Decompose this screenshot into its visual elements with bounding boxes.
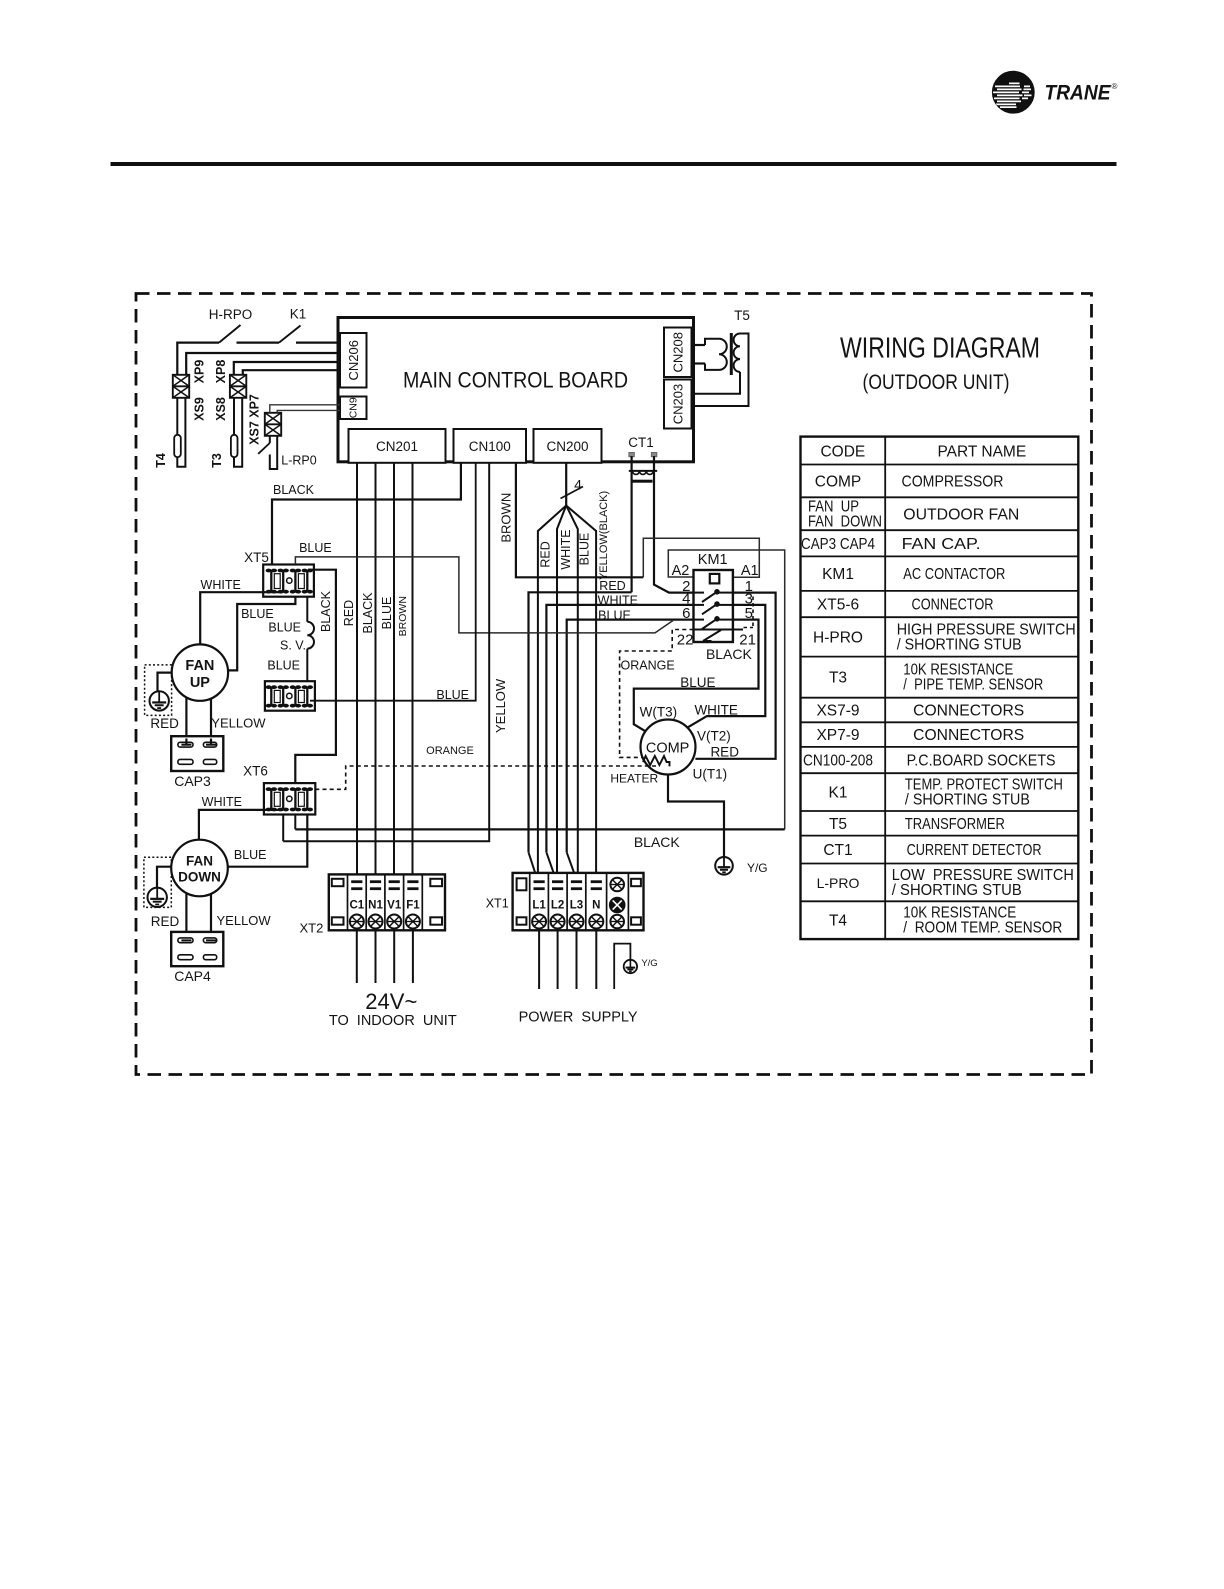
svg-text:K1: K1 xyxy=(829,785,848,802)
svg-text:BLUE: BLUE xyxy=(267,658,300,672)
wire A1 loop (thin) xyxy=(643,538,759,577)
connector XT5 body xyxy=(263,565,314,597)
wire cable conductor RED to XT1 L1 xyxy=(538,506,566,888)
connector XS7/XP7 xyxy=(265,413,281,436)
svg-text:CAP3 CAP4: CAP3 CAP4 xyxy=(801,536,875,553)
svg-text:BLUE: BLUE xyxy=(380,597,394,630)
wire XP9 pin2 to CN206 pin2 xyxy=(186,353,339,375)
wire K1 to CN206 pin1 xyxy=(296,342,339,344)
svg-text:BLUE: BLUE xyxy=(436,688,469,702)
sensor T4 thermistor capsule xyxy=(174,435,181,457)
socket CN200 xyxy=(534,429,602,463)
cable 4-conductor tick xyxy=(561,487,584,499)
wire T5 secondary top to CN203 pin2 xyxy=(694,334,749,407)
svg-text:YELLOW: YELLOW xyxy=(211,715,266,730)
wire jog XT1 L3 xyxy=(567,852,575,880)
connector XP8/XS8 xyxy=(230,375,246,398)
svg-text:L1: L1 xyxy=(532,900,546,912)
svg-text:TRANSFORMER: TRANSFORMER xyxy=(905,816,1005,833)
main control board U100 xyxy=(338,318,694,462)
svg-text:BLUE: BLUE xyxy=(234,848,267,862)
svg-text:C1: C1 xyxy=(349,900,364,912)
svg-text:/ SHORTING STUB: / SHORTING STUB xyxy=(905,792,1030,809)
svg-text:RED: RED xyxy=(539,541,553,567)
capacitor CAP4 xyxy=(171,932,223,966)
wire PE to ground symbol xyxy=(614,944,630,989)
sensor T4 lead loop xyxy=(177,398,185,467)
svg-text:F1: F1 xyxy=(406,900,420,912)
svg-text:WHITE: WHITE xyxy=(598,594,638,608)
svg-text:FAN DOWN: FAN DOWN xyxy=(808,513,882,530)
wire FAN DOWN leads to CAP4 xyxy=(185,894,187,941)
svg-text:RED: RED xyxy=(151,914,180,929)
svg-text:XS7-9: XS7-9 xyxy=(816,703,859,720)
terminal XT1 L3 xyxy=(571,880,582,883)
svg-text:P.C.BOARD SOCKETS: P.C.BOARD SOCKETS xyxy=(907,753,1056,770)
svg-text:T3: T3 xyxy=(210,453,224,468)
wire BLUE XT5 pin3 to FAN UP xyxy=(228,597,295,671)
svg-text:ORANGE: ORANGE xyxy=(426,745,474,757)
svg-text:BROWN: BROWN xyxy=(498,493,513,543)
terminal XT1 N xyxy=(591,880,602,883)
wire FAN UP leads to CAP3 xyxy=(185,698,187,745)
switch L-RPO lead and blade xyxy=(269,436,271,443)
socket CN201 xyxy=(349,429,446,463)
svg-text:XP7-9: XP7-9 xyxy=(816,727,859,744)
socket CN100 xyxy=(454,429,527,463)
svg-text:XS9: XS9 xyxy=(193,397,207,421)
connector XT6 center index circle xyxy=(287,796,292,801)
wire BLUE KM1 pin5 to COMP W(T3) xyxy=(634,620,759,734)
svg-text:MAIN CONTROL BOARD: MAIN CONTROL BOARD xyxy=(403,368,628,393)
wire FAN UP to ground xyxy=(158,673,172,692)
motor FAN UP xyxy=(172,644,228,700)
svg-text:POWER SUPPLY: POWER SUPPLY xyxy=(519,1010,638,1026)
svg-text:L3: L3 xyxy=(570,900,583,912)
svg-text:CN100-208: CN100-208 xyxy=(803,753,873,770)
svg-text:HEATER: HEATER xyxy=(610,772,658,786)
svg-text:CN200: CN200 xyxy=(546,439,588,454)
wire CN201 pin3 to XT2 xyxy=(393,463,395,881)
connector XP9/XS9 xyxy=(173,375,189,398)
sensor T3 thermistor capsule xyxy=(231,435,238,457)
svg-text:Y/G: Y/G xyxy=(747,861,768,875)
svg-text:CN206: CN206 xyxy=(346,340,361,380)
svg-text:L2: L2 xyxy=(551,900,564,912)
svg-text:WHITE: WHITE xyxy=(694,702,738,717)
svg-text:UP: UP xyxy=(190,675,210,691)
connector XT5 terminal group 2 pads and bars xyxy=(290,569,296,573)
svg-text:/ SHORTING STUB: / SHORTING STUB xyxy=(897,636,1022,653)
svg-text:XT6: XT6 xyxy=(243,764,268,779)
wire BLACK XT5 pin4 to XT6 xyxy=(295,570,336,783)
svg-text:BROWN: BROWN xyxy=(397,596,409,636)
svg-text:XT5: XT5 xyxy=(244,550,269,565)
svg-text:KM1: KM1 xyxy=(822,566,854,583)
svg-text:OUTDOOR FAN: OUTDOOR FAN xyxy=(903,506,1019,523)
svg-text:H-RPO: H-RPO xyxy=(209,307,253,322)
terminal XT2 C1 xyxy=(351,880,362,883)
svg-text:CONNECTOR: CONNECTOR xyxy=(912,597,994,614)
header horizontal rule xyxy=(111,162,1117,166)
svg-text:N: N xyxy=(592,900,600,912)
connector XT6 body xyxy=(264,783,315,814)
connector XT5-2 body xyxy=(265,681,315,711)
svg-text:/ PIPE TEMP. SENSOR: / PIPE TEMP. SENSOR xyxy=(903,677,1043,694)
svg-text:V1: V1 xyxy=(387,900,402,912)
svg-text:/ SHORTING STUB: / SHORTING STUB xyxy=(892,882,1022,899)
wire YELLOW CN100 to XT6 xyxy=(283,463,489,841)
terminal XT1 L1 xyxy=(534,880,545,883)
ground symbol FAN DOWN (dotted box) xyxy=(144,857,171,907)
svg-text:XS8: XS8 xyxy=(214,397,228,421)
connector XT5-2 terminal group 1 pads and bars xyxy=(266,685,272,689)
svg-text:CN100: CN100 xyxy=(469,439,511,454)
terminal XT2 V1 xyxy=(389,880,400,883)
svg-text:BLACK: BLACK xyxy=(634,834,681,850)
svg-text:BLACK: BLACK xyxy=(361,592,375,634)
parts table frame xyxy=(801,437,1079,939)
wire BLACK main board to XT5 pin1 xyxy=(272,463,461,565)
wire CN208 pin2 to T5 primary xyxy=(692,362,706,364)
svg-text:T4: T4 xyxy=(154,453,168,468)
capacitor CAP3 xyxy=(171,736,223,771)
svg-text:YELLOW: YELLOW xyxy=(217,913,272,928)
connector XT5-2 center index circle xyxy=(287,693,292,698)
wire XS7 pin2 to CN9 (thin) xyxy=(277,410,340,412)
svg-text:L-PRO: L-PRO xyxy=(817,875,860,891)
svg-text:BLACK: BLACK xyxy=(273,483,315,497)
wire XT2 N1 to indoor unit xyxy=(375,929,377,984)
connector XT5-2 terminal group 2 pads and bars xyxy=(290,685,296,689)
svg-text:BLUE: BLUE xyxy=(299,541,332,555)
wire cable conductor YELLOW(BLACK) to XT1 N xyxy=(566,506,596,881)
svg-text:CAP3: CAP3 xyxy=(174,773,211,789)
svg-text:6: 6 xyxy=(682,605,690,622)
wire BLACK KM1 A2 return along bottom to XT6 xyxy=(295,828,784,830)
svg-text:CN203: CN203 xyxy=(671,384,686,424)
ground symbol Y/G at compressor xyxy=(715,857,733,875)
svg-text:TO INDOOR UNIT: TO INDOOR UNIT xyxy=(329,1013,457,1029)
svg-text:XS7 XP7: XS7 XP7 xyxy=(248,394,262,445)
svg-text:BLUE: BLUE xyxy=(680,675,715,690)
svg-text:®: ® xyxy=(1112,82,1118,91)
svg-text:XT5-6: XT5-6 xyxy=(817,597,859,614)
wire H-RPO to K1 switch xyxy=(237,342,280,344)
svg-text:V(T2): V(T2) xyxy=(697,729,731,744)
dashed diagram border frame xyxy=(136,294,1092,1075)
svg-text:S. V.: S. V. xyxy=(280,639,306,653)
wire XS7 pin1 to CN9 (thin) xyxy=(270,405,340,413)
CT1 secondary coil and core bar xyxy=(629,470,657,472)
svg-text:COMPRESSOR: COMPRESSOR xyxy=(902,473,1004,490)
svg-text:WIRING DIAGRAM: WIRING DIAGRAM xyxy=(840,333,1040,365)
svg-text:BLUE: BLUE xyxy=(577,533,591,566)
socket CN9 xyxy=(340,397,367,420)
terminal XT2 N1 xyxy=(370,880,381,883)
wire XT1 N to power supply xyxy=(595,929,597,990)
wire XT1 L3 to power supply xyxy=(576,929,578,990)
ground symbol Y/G at power supply xyxy=(624,960,637,973)
wire XP8 pin1 to CN206 pin3 xyxy=(234,362,339,375)
svg-text:CURRENT DETECTOR: CURRENT DETECTOR xyxy=(907,842,1042,859)
svg-text:CT1: CT1 xyxy=(823,842,852,859)
switch K1 blade xyxy=(279,326,301,343)
wire KM1 pin 21 stub xyxy=(733,629,743,631)
wire XP9 pin1 to H-RPO switch xyxy=(177,343,219,375)
svg-text:BLUE: BLUE xyxy=(241,607,274,621)
svg-text:CONNECTORS: CONNECTORS xyxy=(913,703,1024,720)
svg-text:COMP: COMP xyxy=(815,473,862,490)
svg-text:RED: RED xyxy=(342,600,356,626)
wire BLUE connector to CN100 xyxy=(310,463,476,701)
svg-text:BLACK: BLACK xyxy=(706,646,753,662)
terminal XT1 PE column xyxy=(610,878,624,892)
svg-text:W(T3): W(T3) xyxy=(640,705,678,720)
wire cable conductor BLUE to XT1 L3 xyxy=(566,506,578,888)
svg-text:T3: T3 xyxy=(829,670,847,687)
svg-text:CONNECTORS: CONNECTORS xyxy=(913,727,1024,744)
connector XT6 terminal group 2 pads and bars xyxy=(290,787,296,791)
wire BLUE XT5 pin3 to KM1 pin6 node (thin) xyxy=(295,557,673,633)
wire CN201 pin1 to XT2 xyxy=(356,463,358,881)
wire A2 loop to XT6 (thin) xyxy=(668,550,784,829)
contactor KM1 contact 4-3 xyxy=(694,604,705,606)
connector XT6 terminal group 1 pads and bars xyxy=(266,787,272,791)
svg-text:DOWN: DOWN xyxy=(178,870,221,885)
wire RED XT1-L1 riser to CT1 xyxy=(529,592,632,852)
svg-text:T5: T5 xyxy=(829,816,847,833)
wire CN201 pin2 to XT2 xyxy=(375,463,377,881)
wire CN208 pin1 to T5 primary xyxy=(692,344,706,346)
svg-text:K1: K1 xyxy=(290,307,307,322)
switch H-PRO blade (H-RPO) xyxy=(219,325,241,343)
svg-text:KM1: KM1 xyxy=(698,552,728,568)
wire CN201 pin4 to XT2 xyxy=(412,463,414,881)
transformer T5 primary winding xyxy=(705,339,727,370)
svg-text:4: 4 xyxy=(574,477,582,493)
svg-text:Y/G: Y/G xyxy=(641,958,657,969)
svg-text:CODE: CODE xyxy=(820,444,865,461)
svg-text:A2: A2 xyxy=(672,563,690,579)
wire WHITE XT1-L2 riser to KM1 pin 4 xyxy=(546,605,693,852)
svg-text:ORANGE: ORANGE xyxy=(621,659,675,673)
svg-text:RED: RED xyxy=(710,745,739,760)
socket CN208 xyxy=(664,328,692,378)
svg-text:XP9: XP9 xyxy=(193,360,207,384)
wire WHITE KM1 pin3 to COMP V(T2) xyxy=(688,605,766,727)
wire XT2 F1 to indoor unit xyxy=(412,929,414,984)
svg-text:AC CONTACTOR: AC CONTACTOR xyxy=(903,566,1005,583)
sensor T3 lead loop xyxy=(234,398,242,467)
socket CN203 xyxy=(664,380,692,429)
wire FAN DOWN to ground xyxy=(157,867,171,888)
svg-text:COMP: COMP xyxy=(646,741,690,757)
wire BLUE XT1-L3 riser to KM1 pin 6 xyxy=(567,620,694,853)
svg-text:22: 22 xyxy=(677,632,694,649)
contactor KM1 body xyxy=(694,570,733,642)
terminal XT1 L2 xyxy=(552,880,563,883)
svg-text:BLACK: BLACK xyxy=(319,590,333,632)
CT1 board pin pads xyxy=(629,453,634,457)
svg-text:T5: T5 xyxy=(734,308,750,323)
svg-text:H-PRO: H-PRO xyxy=(813,629,863,646)
svg-text:N1: N1 xyxy=(368,900,383,912)
svg-text:BLUE: BLUE xyxy=(598,608,631,622)
svg-text:T4: T4 xyxy=(829,913,847,930)
terminal XT2 F1 xyxy=(407,880,418,883)
shorting stub wire ORANGE KM1 pin22 to heater (dashed) xyxy=(620,630,694,758)
svg-text:YELLOW: YELLOW xyxy=(493,678,508,733)
svg-text:WHITE: WHITE xyxy=(202,795,242,809)
svg-text:RED: RED xyxy=(599,579,625,593)
svg-text:XT1: XT1 xyxy=(486,897,509,911)
wire XT2 C1 to indoor unit xyxy=(356,929,358,984)
wire RED KM1 pin1 to COMP U(T1) xyxy=(695,593,775,759)
wire CN200 output cable xyxy=(565,463,567,506)
heater element xyxy=(643,756,669,766)
svg-text:FAN CAP.: FAN CAP. xyxy=(902,536,981,553)
compressor COMP motor circle xyxy=(641,720,696,775)
svg-text:A1: A1 xyxy=(741,563,759,579)
wire ORANGE XT6 to heater (dashed) xyxy=(315,766,657,789)
svg-text:/ ROOM TEMP. SENSOR: / ROOM TEMP. SENSOR xyxy=(903,920,1062,937)
contactor KM1 contact 6-5 xyxy=(694,619,705,621)
svg-text:YELLOW(BLACK): YELLOW(BLACK) xyxy=(598,491,610,580)
svg-text:(OUTDOOR UNIT): (OUTDOOR UNIT) xyxy=(863,370,1010,394)
svg-text:U(T1): U(T1) xyxy=(693,766,728,781)
svg-text:24V~: 24V~ xyxy=(365,989,417,1014)
svg-text:CT1: CT1 xyxy=(628,435,654,450)
contactor KM1 coil symbol xyxy=(710,574,720,584)
transformer T5 core xyxy=(730,333,733,375)
wire XT6 pin3 to BLACK return xyxy=(294,815,296,830)
svg-text:CAP4: CAP4 xyxy=(174,968,211,984)
motor FAN DOWN xyxy=(171,840,228,897)
wire BROWN CN100 to KM1 A1 xyxy=(516,463,643,578)
svg-text:BLUE: BLUE xyxy=(268,621,301,635)
compressor case ground wire xyxy=(668,775,724,858)
svg-text:FAN: FAN xyxy=(185,658,214,674)
svg-text:L-RP0: L-RP0 xyxy=(281,454,316,468)
wire CT1 left leg (RED node) xyxy=(630,456,632,592)
wire cable conductor WHITE to XT1 L2 xyxy=(557,506,566,888)
shorting stub H-PRO dashed (pins 3/21) xyxy=(752,597,754,628)
svg-text:TRANE: TRANE xyxy=(1045,81,1112,104)
svg-text:CN9: CN9 xyxy=(348,397,360,418)
svg-text:PART NAME: PART NAME xyxy=(937,444,1026,461)
svg-text:FAN: FAN xyxy=(186,854,213,869)
contactor KM1 contact 22-21 xyxy=(694,629,733,631)
solenoid valve S.V. coil wire xyxy=(306,597,308,622)
svg-text:XP8: XP8 xyxy=(214,360,228,384)
svg-text:XT2: XT2 xyxy=(299,921,323,936)
wire jog XT1 L1 xyxy=(529,852,536,880)
wire XT1 L1 to power supply xyxy=(538,929,540,990)
contactor KM1 contact 2-1 xyxy=(694,592,705,594)
connector XT5 terminal group 1 pads and bars xyxy=(266,569,272,573)
svg-text:WHITE: WHITE xyxy=(559,529,573,569)
ground symbol FAN UP (dotted box) xyxy=(145,665,172,716)
svg-text:RED: RED xyxy=(150,716,179,731)
svg-text:CN208: CN208 xyxy=(671,332,686,372)
svg-text:CN201: CN201 xyxy=(376,439,418,454)
transformer T5 secondary winding xyxy=(734,334,740,372)
wire WHITE XT6 to FAN DOWN xyxy=(199,810,283,840)
connector XT5 center index circle xyxy=(287,578,292,583)
wire XP8 pin2 to CN206 pin4 xyxy=(243,370,339,375)
wire T5 secondary bottom to CN203 pin1 xyxy=(694,372,740,394)
TRANE logo globe xyxy=(992,71,1034,113)
wire WHITE XT5 to FAN UP xyxy=(200,592,283,644)
wire BLUE XT6 to FAN DOWN xyxy=(228,815,308,867)
svg-text:WHITE: WHITE xyxy=(201,578,241,592)
wire XT1 L2 to power supply xyxy=(557,929,559,990)
wire CT1 right leg to KM1 pin 2 xyxy=(654,456,694,593)
wire XT2 V1 to indoor unit xyxy=(393,929,395,984)
wire jog XT1 L2 xyxy=(546,852,554,880)
socket CN206 xyxy=(340,333,367,388)
